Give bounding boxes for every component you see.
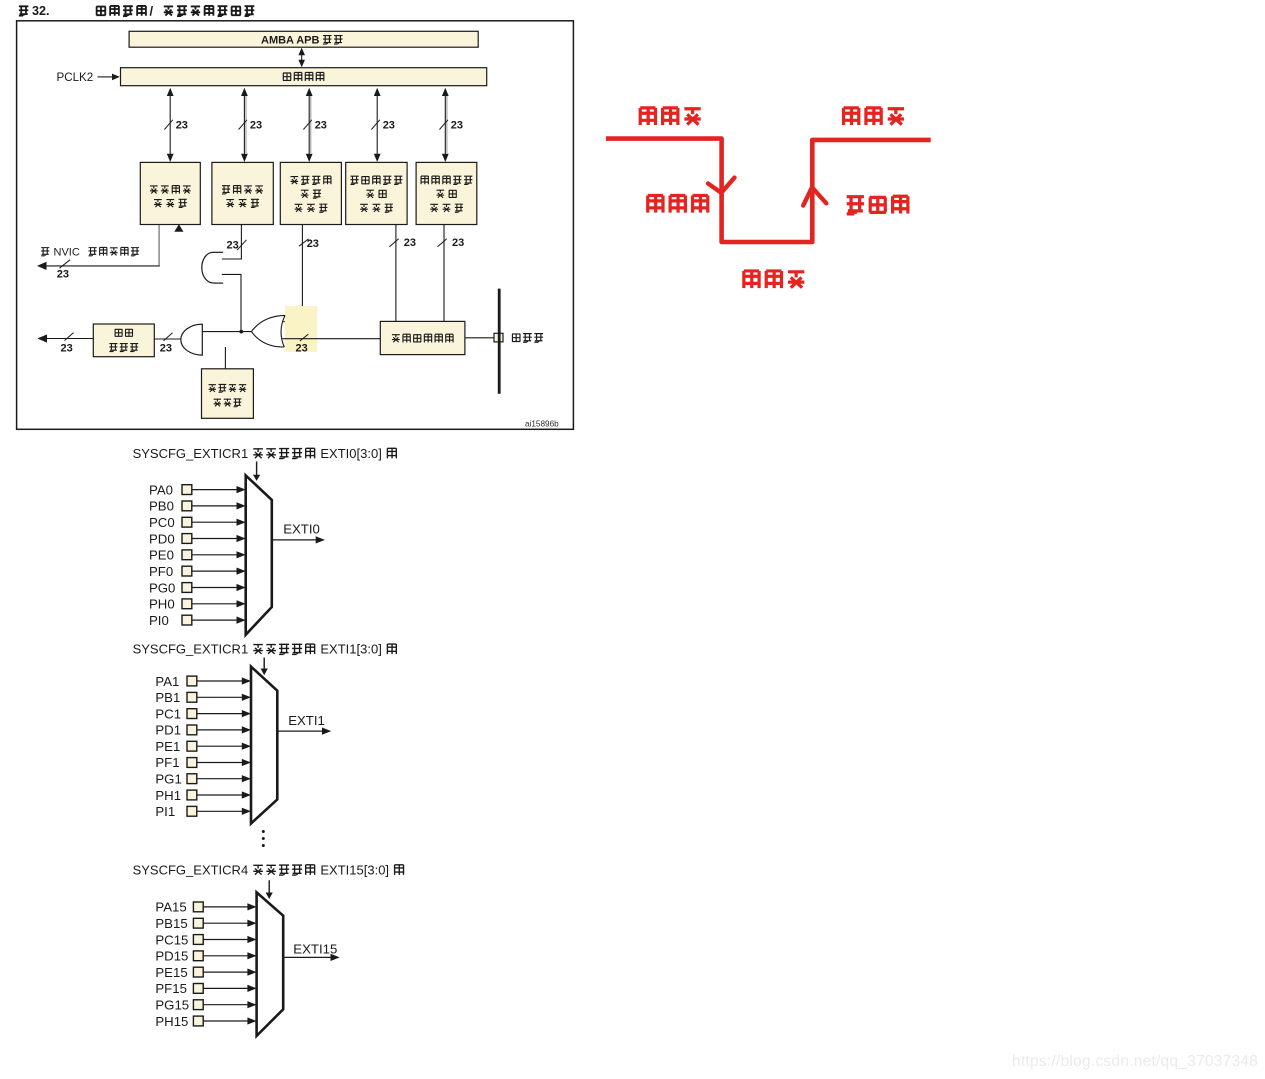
arrowhead up 3: [306, 88, 313, 96]
arrowhead down 3: [306, 154, 313, 162]
arrowhead input PD15: [247, 952, 256, 959]
pad square PC0: [182, 517, 192, 527]
pad square PG1: [187, 774, 197, 784]
label CJK '下降沿触发' of falling edge trigger selection register: [421, 176, 473, 184]
box: rising edge trigger selection register: [346, 162, 407, 224]
svg-text:PI0: PI0: [149, 613, 169, 628]
wire input PF0: [192, 570, 237, 572]
arrowhead down 5: [442, 154, 449, 162]
svg-text:PG1: PG1: [155, 772, 181, 787]
frame: diagram outer border: [17, 21, 574, 430]
pad square PB1: [187, 692, 197, 702]
svg-text:PG0: PG0: [149, 580, 175, 595]
label CJK 'to': [41, 248, 49, 256]
mux 2 trapezoid: [251, 667, 277, 824]
wire: bus double arrow 4 (peripheral interface to register): [376, 91, 378, 159]
svg-text:SYSCFG_EXTICR1: SYSCFG_EXTICR1: [133, 642, 249, 657]
wire: pulse generator output left: [46, 338, 93, 340]
red label CJK 'low level': [743, 271, 805, 288]
arrowhead up 1: [167, 88, 174, 96]
arrowhead: to NVIC left: [37, 262, 47, 270]
arrowhead down 1: [167, 154, 174, 162]
red label CJK 'falling edge': [647, 195, 709, 212]
slash mark event out bus: [164, 333, 173, 341]
label CJK 'input line': [512, 334, 543, 343]
wire input PG15: [203, 1004, 248, 1006]
wire input PG0: [192, 587, 237, 589]
arrowhead input PH1: [242, 791, 251, 798]
title CJK run 'external interrupt': [96, 6, 146, 16]
mux1 title CJK 'bits in register': [253, 448, 315, 458]
wire: gate lower input down to junction: [222, 274, 241, 331]
label CJK 'register': [214, 399, 242, 407]
arrowhead input PA1: [242, 677, 251, 684]
svg-text:PB0: PB0: [149, 499, 174, 514]
pad square PF1: [187, 758, 197, 768]
arrowhead input PG1: [242, 775, 251, 782]
wire: mux 2 select arrow: [263, 658, 265, 670]
svg-text:PA0: PA0: [149, 482, 173, 497]
label CJK '软件中断' of software interrupt event register: [290, 176, 331, 184]
slash mark soft-int bus: [299, 239, 309, 246]
pad square PE15: [193, 967, 203, 977]
svg-text:/: /: [150, 4, 154, 19]
slash mark bus width 2: [239, 120, 247, 130]
pad square PG15: [193, 1000, 203, 1010]
svg-text:23: 23: [250, 120, 262, 132]
label CJK '挂起请求' of pending request register: [150, 186, 191, 194]
label CJK '寄存器' of falling edge trigger selection register: [430, 204, 463, 212]
label CJK '寄存器' of rising edge trigger selection register: [360, 204, 393, 212]
slash mark falling bus: [438, 239, 447, 247]
svg-text:NVIC: NVIC: [54, 247, 80, 259]
wire: interrupt mask register down to gate input: [222, 225, 242, 259]
wire output EXTI15: [283, 956, 331, 958]
svg-text:PE1: PE1: [155, 739, 180, 754]
wire input PD15: [203, 955, 248, 957]
gate: interrupt mask AND gate arc: [202, 252, 214, 283]
svg-text:PH15: PH15: [155, 1014, 188, 1029]
arrowhead input PF0: [237, 568, 246, 575]
wire output EXTI1: [277, 730, 322, 732]
red rising-edge arrowhead: [803, 187, 826, 205]
svg-text:PF0: PF0: [149, 564, 173, 579]
wire input PE15: [203, 971, 248, 973]
slash mark pulse out: [65, 333, 74, 341]
arrowhead up 4: [374, 88, 381, 96]
wire input PF1: [197, 762, 243, 764]
wire input PB1: [197, 696, 243, 698]
label CJK '寄存器' of interrupt mask register: [226, 199, 259, 207]
wire input PA0: [192, 489, 237, 491]
pad square PA1: [187, 676, 197, 686]
svg-text:EXTI0[3:0]: EXTI0[3:0]: [320, 446, 381, 461]
wire: PCLK2 arrow into peripheral interface: [98, 76, 114, 78]
wire: double arrow between AMBA bus and peripheral interface: [301, 52, 303, 63]
box: pending request register: [140, 162, 200, 224]
arrowhead input PC15: [247, 936, 256, 943]
svg-text:PE0: PE0: [149, 548, 174, 563]
svg-text:EXTI0: EXTI0: [283, 522, 320, 537]
svg-text:PB1: PB1: [155, 690, 180, 705]
gate: OR gate (faces left): [251, 315, 285, 347]
red label CJK 'high level' right: [842, 108, 904, 125]
svg-text:PG15: PG15: [155, 998, 189, 1013]
svg-text:ai15896b: ai15896b: [525, 419, 559, 428]
svg-text:PH1: PH1: [155, 788, 181, 803]
slash mark bus width 3: [303, 120, 311, 130]
red falling-edge arrowhead: [708, 178, 735, 193]
svg-text:PB15: PB15: [155, 916, 187, 931]
svg-text:PA1: PA1: [155, 674, 179, 689]
label CJK '寄存器' of software interrupt event register: [295, 204, 328, 212]
box: event mask register: [202, 369, 254, 419]
arrowhead input PF1: [242, 759, 251, 766]
mux3 title CJK 'bits in register': [253, 865, 315, 875]
arrowhead input PG0: [237, 584, 246, 591]
pad square PC15: [193, 935, 203, 945]
arrowhead up 2: [241, 88, 248, 96]
mux 1 trapezoid: [246, 475, 272, 634]
arrowhead output EXTI0: [316, 536, 325, 543]
pad square PH15: [193, 1016, 203, 1026]
arrowhead down 2: [241, 154, 248, 162]
svg-text:23: 23: [176, 120, 188, 132]
arrowhead up 5: [442, 88, 449, 96]
wire: falling edge selection register down to edge detect: [443, 225, 445, 322]
pad square PD0: [182, 534, 192, 544]
slash mark bus width 1: [164, 120, 172, 130]
arrowhead input PI1: [242, 808, 251, 815]
red label CJK 'rising edge': [847, 196, 909, 214]
box: interrupt mask register: [212, 162, 273, 224]
pad square PA15: [193, 902, 203, 912]
pad square PH1: [187, 790, 197, 800]
label CJK 'edge detect circuit': [392, 334, 454, 342]
svg-text:23: 23: [315, 120, 327, 132]
svg-text:PC0: PC0: [149, 515, 175, 530]
wire input PI1: [197, 810, 243, 812]
svg-text:PH0: PH0: [149, 597, 175, 612]
svg-text:32.: 32.: [32, 4, 50, 18]
svg-text:23: 23: [452, 237, 464, 249]
box: pulse generator: [93, 324, 154, 357]
svg-text:EXTI15[3:0]: EXTI15[3:0]: [320, 862, 389, 877]
arrowhead input PB0: [237, 502, 246, 509]
svg-text:23: 23: [61, 343, 73, 355]
svg-text:PD15: PD15: [155, 949, 188, 964]
label CJK '中断屏蔽' of interrupt mask register: [222, 186, 263, 194]
pad square PC1: [187, 709, 197, 719]
arrowhead mux 2 select: [261, 669, 268, 676]
wire input PC1: [197, 713, 243, 715]
wire input PB0: [192, 505, 237, 507]
arrowhead input PC0: [237, 519, 246, 526]
arrowhead pulse out left: [37, 334, 47, 342]
pad square PE0: [182, 550, 192, 560]
slash mark bus width 4: [371, 120, 379, 130]
wire input PE0: [192, 554, 237, 556]
arrowhead mux 3 select: [266, 893, 273, 900]
wire input PB15: [203, 922, 248, 924]
pad square PF0: [182, 566, 192, 576]
input pad square: [494, 333, 503, 342]
arrowhead down 4: [374, 154, 381, 162]
wire output EXTI0: [272, 539, 317, 541]
arrowhead input PI0: [237, 617, 246, 624]
svg-text:23: 23: [404, 237, 416, 249]
wire: bus double arrow 3 (peripheral interface to register): [308, 91, 310, 159]
label CJK '事件' of software interrupt event register: [301, 190, 321, 198]
slash mark rising bus: [389, 239, 398, 247]
svg-text:PE15: PE15: [155, 965, 187, 980]
box: peripheral interface: [121, 68, 487, 86]
label CJK 'peripheral interface': [283, 72, 324, 80]
title CJK run 'event controller block diagram': [164, 6, 255, 16]
arrowhead: up into pending request register: [174, 224, 183, 232]
svg-text:23: 23: [57, 269, 69, 281]
pad square PG0: [182, 583, 192, 593]
arrowhead input PB15: [247, 920, 256, 927]
box: AMBA APB bus: [129, 31, 478, 47]
red waveform polyline: [606, 139, 931, 242]
wire: event gate output to pulse generator: [154, 338, 181, 340]
arrowhead input PD1: [242, 726, 251, 733]
pad square PD1: [187, 725, 197, 735]
arrowhead PCLK2: [112, 74, 120, 81]
figure label CJK char 'tu': [19, 6, 28, 15]
box: software interrupt event register: [280, 162, 341, 224]
label CJK 'generator': [109, 344, 138, 352]
wire input PH0: [192, 603, 237, 605]
wire input PA1: [197, 680, 243, 682]
wire input PG1: [197, 778, 243, 780]
wire input PF15: [203, 987, 248, 989]
arrowhead input PH0: [237, 600, 246, 607]
slash mark bus width 5: [440, 120, 448, 130]
svg-text:PA15: PA15: [155, 900, 186, 915]
svg-text:PD0: PD0: [149, 531, 175, 546]
wire: bus double arrow 2 (peripheral interface to register): [243, 91, 245, 159]
svg-text:SYSCFG_EXTICR4: SYSCFG_EXTICR4: [133, 862, 249, 877]
ellipsis dots between mux 2 and mux 3: [262, 830, 265, 847]
arrowhead input PC1: [242, 710, 251, 717]
mux2 title CJK 'bit': [387, 644, 397, 654]
arrowhead mux 1 select: [253, 475, 260, 481]
arrowhead down into peripheral interface: [298, 60, 305, 68]
arrowhead up into AMBA bus: [298, 48, 305, 56]
svg-text:PC15: PC15: [155, 932, 188, 947]
gate stub bottom: [214, 282, 224, 284]
svg-text:AMBA APB: AMBA APB: [261, 35, 320, 47]
gate: event AND gate (faces left): [181, 324, 203, 355]
arrowhead input PB1: [242, 694, 251, 701]
svg-text:23: 23: [307, 238, 319, 250]
arrowhead input PE1: [242, 743, 251, 750]
pad square PE1: [187, 741, 197, 751]
wire: input line to edge detect: [465, 337, 494, 339]
arrowhead output EXTI15: [331, 954, 340, 961]
label CJK 'event mask': [209, 384, 247, 392]
wire: event mask register up line: [224, 347, 226, 369]
svg-text:PC1: PC1: [155, 706, 181, 721]
wire input PH15: [203, 1020, 248, 1022]
label CJK 'bus': [323, 36, 342, 44]
svg-text:EXTI1: EXTI1: [288, 713, 325, 728]
input line vertical (thick): [498, 289, 501, 394]
label CJK '选择' of rising edge trigger selection register: [366, 190, 386, 198]
wire input PD0: [192, 538, 237, 540]
mux3 title CJK 'bit': [394, 865, 404, 875]
arrowhead output EXTI1: [322, 728, 331, 735]
svg-text:23: 23: [227, 239, 239, 251]
arrowhead input PD0: [237, 535, 246, 542]
svg-text:PF1: PF1: [155, 755, 179, 770]
pad square PF15: [193, 984, 203, 994]
label CJK '选择' of falling edge trigger selection register: [436, 190, 456, 198]
svg-text:23: 23: [451, 120, 463, 132]
pad square PI0: [182, 615, 192, 625]
label CJK '寄存器' of pending request register: [154, 199, 187, 207]
label CJK 'interrupt controller': [89, 247, 140, 255]
wire: mux 3 select arrow: [268, 880, 270, 893]
mux2 title CJK 'bits in register': [253, 644, 315, 654]
wire: pending register down line (gray): [158, 225, 160, 266]
svg-text:PF15: PF15: [155, 981, 187, 996]
wire: mux 1 select arrow: [256, 462, 258, 476]
wire: OR gate output to event gate input: [202, 331, 251, 333]
arrowhead input PA0: [237, 486, 246, 493]
svg-text:23: 23: [383, 120, 395, 132]
svg-text:PD1: PD1: [155, 723, 181, 738]
svg-text:23: 23: [296, 343, 308, 355]
svg-text:https://blog.csdn.net/qq_37037: https://blog.csdn.net/qq_37037348: [1012, 1053, 1258, 1070]
wire: bus double arrow 5 (peripheral interface to register): [444, 91, 446, 159]
pad square PI1: [187, 806, 197, 816]
wire input PI0: [192, 619, 237, 621]
wire input PD1: [197, 729, 243, 731]
wire input PC15: [203, 939, 248, 941]
pad square PB0: [182, 501, 192, 511]
wire input PH1: [197, 794, 243, 796]
wire: to NVIC horizontal: [45, 265, 160, 267]
wire: edge detect to OR gate bottom input: [282, 338, 380, 340]
arrowhead input PF15: [247, 985, 256, 992]
box: falling edge trigger selection register: [416, 162, 477, 224]
mux1 title CJK 'bit': [387, 448, 397, 458]
arrowhead input PG15: [247, 1001, 256, 1008]
wire: bus double arrow 1 (peripheral interface to register): [169, 91, 171, 159]
svg-text:SYSCFG_EXTICR1: SYSCFG_EXTICR1: [133, 446, 249, 461]
junction node dot: [239, 330, 243, 334]
pad square PB15: [193, 918, 203, 928]
wire input PC0: [192, 521, 237, 523]
highlight rectangle (pale selection): [285, 306, 317, 352]
arrowhead input PE15: [247, 969, 256, 976]
wire input PE1: [197, 745, 243, 747]
arrowhead input PA15: [247, 903, 256, 910]
arrowhead input PE0: [237, 551, 246, 558]
wire: rising edge selection register down to edge detect: [395, 225, 397, 322]
label CJK 'pulse': [115, 329, 133, 336]
svg-text:PCLK2: PCLK2: [57, 71, 94, 84]
label CJK '上升沿触发' of rising edge trigger selection register: [350, 176, 402, 184]
arrowhead input PH15: [247, 1017, 256, 1024]
box: edge detect circuit: [380, 321, 465, 354]
slash mark OR input bus: [300, 334, 309, 341]
svg-text:23: 23: [160, 343, 172, 355]
pad square PA0: [182, 485, 192, 495]
mux 3 trapezoid: [257, 892, 284, 1036]
pad square PH0: [182, 599, 192, 609]
red label CJK 'high level' left: [639, 108, 701, 125]
gate stub top: [213, 251, 224, 253]
svg-text:PI1: PI1: [155, 804, 175, 819]
svg-text:EXTI1[3:0]: EXTI1[3:0]: [320, 642, 381, 657]
wire: software interrupt event register down to OR gate: [283, 225, 302, 322]
pad square PD15: [193, 951, 203, 961]
slash mark interrupt mask bus: [237, 240, 247, 250]
wire input PA15: [203, 906, 248, 908]
slash mark NVIC bus: [60, 260, 71, 268]
